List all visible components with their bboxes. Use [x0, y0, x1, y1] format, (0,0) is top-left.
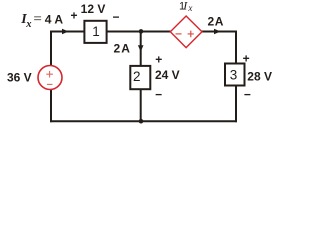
svg-text:2: 2 — [208, 14, 215, 28]
svg-text:+: + — [243, 52, 250, 66]
svg-text:4 A: 4 A — [45, 13, 64, 27]
svg-text:2: 2 — [133, 69, 141, 84]
svg-text:28 V: 28 V — [247, 70, 272, 84]
svg-text:24 V: 24 V — [155, 68, 180, 82]
svg-text:x: x — [25, 19, 31, 30]
svg-text:2: 2 — [114, 42, 121, 56]
svg-text:3: 3 — [230, 67, 238, 82]
svg-text:−: − — [244, 88, 251, 102]
svg-text:A: A — [121, 42, 130, 56]
svg-text:−: − — [155, 87, 162, 101]
svg-text:1: 1 — [92, 24, 100, 39]
svg-text:=: = — [33, 11, 41, 27]
svg-text:36 V: 36 V — [7, 71, 32, 85]
svg-text:A: A — [215, 14, 224, 28]
svg-text:+: + — [70, 9, 77, 23]
svg-text:+: + — [155, 53, 162, 67]
svg-text:12 V: 12 V — [81, 2, 106, 16]
svg-text:x: x — [187, 3, 192, 13]
svg-text:−: − — [112, 10, 119, 24]
